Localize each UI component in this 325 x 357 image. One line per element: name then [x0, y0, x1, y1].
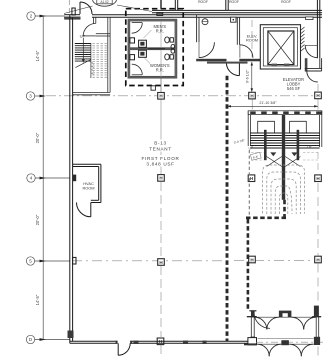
dim arrows: [40, 15, 47, 341]
restroom dashed demolition border: [126, 9, 183, 86]
bottom wall tick 2: [183, 341, 188, 344]
bottom wall corner blob: [68, 331, 74, 339]
leader men: [144, 30, 152, 38]
outer double door right pair swings: [289, 344, 301, 356]
stair hall right wall: [319, 115, 321, 147]
svg-text:ROOF: ROOF: [229, 0, 239, 4]
roof drain box on top wall: [157, 12, 163, 15]
corridor door swing into vestibule: [254, 312, 270, 328]
stair hall left wall: [247, 111, 249, 146]
grid bubble 5: [26, 257, 34, 265]
marker H (252,95.6): [249, 92, 256, 99]
marker H (160.5,341.3): [157, 338, 164, 345]
sink fixture men left wall: [130, 38, 135, 43]
drinking fountain right wall: [171, 44, 175, 48]
row stub line 5: [35, 260, 70, 262]
right run down arrow: [291, 152, 297, 156]
landing dashed edges: [251, 153, 319, 161]
vestibule wall above stair: [93, 17, 95, 24]
marker H (319.5,180): [315, 175, 322, 182]
grid col line x=161: [160, 100, 162, 357]
elevator cab: [268, 31, 294, 65]
up arrow line: [82, 38, 84, 60]
left run landing break diagonals: [267, 157, 282, 167]
elevator shaft outer wall: [260, 25, 300, 69]
marker H (161,262): [158, 259, 165, 266]
stair door swing: [83, 23, 96, 36]
HVAC door swing: [77, 203, 91, 217]
marker H (318,259.5): [315, 256, 322, 263]
toilet men: [165, 37, 170, 43]
grid row 3 dash line across plan: [46, 95, 318, 97]
marker H (252,259.5): [249, 256, 256, 263]
svg-text:21'-10 3/8": 21'-10 3/8": [259, 101, 277, 105]
horizontal dim 21'-10 3/8": [227, 105, 318, 107]
left run treads: [250, 133, 281, 148]
svg-text:3,848 USF: 3,848 USF: [146, 161, 174, 166]
row stub line 4: [35, 177, 69, 179]
overhead hatch dashed flight: [93, 44, 108, 78]
top-right closet walls: [305, 58, 308, 71]
left run rail post bar: [264, 130, 267, 160]
svg-text:14'-5": 14'-5": [35, 50, 40, 61]
left wall column bump row5: [73, 257, 76, 264]
bottom door swing: [118, 343, 130, 355]
inner double door left pair swings: [255, 317, 267, 329]
bottom exterior wall: [70, 340, 118, 342]
lobby top wall: [196, 59, 226, 62]
womens door swing: [132, 64, 143, 75]
stair room bottom wall: [73, 91, 111, 93]
stair hall hatched top wall: [248, 111, 322, 115]
right room door swing: [305, 45, 317, 57]
outer double door left pair swings: [257, 344, 269, 356]
svg-text:ROOF: ROOF: [281, 0, 291, 4]
marker H (242,180): [248, 175, 255, 182]
bottom wall tick 1: [134, 341, 139, 344]
elev machine room door swing: [240, 45, 253, 58]
dashed chevrons center: [90, 63, 93, 76]
callout leader left: [64, 6, 93, 14]
svg-text:FIRST FLOOR: FIRST FLOOR: [142, 156, 180, 161]
toilet women: [165, 54, 170, 60]
row stub line D: [35, 339, 70, 341]
svg-text:14'-5": 14'-5": [35, 294, 40, 305]
row stub line 3: [35, 95, 44, 97]
roof wall stub x176: [174, 0, 176, 10]
HVAC room right wall: [98, 167, 100, 201]
wall stub at top-left T: [64, 17, 80, 20]
outer wall left segment: [244, 343, 256, 345]
plumbing chase wall: [130, 47, 175, 50]
column grid markers (H in square): [157, 92, 321, 345]
restroom outer walls (poche): [129, 20, 177, 78]
HVAC room top wall: [73, 163, 101, 165]
svg-text:20'-0": 20'-0": [35, 214, 40, 225]
mens door swing: [132, 23, 143, 34]
grid dashes through stair hall: [317, 152, 319, 173]
callout bubble: [64, 0, 152, 14]
grid col line x=318: [317, 84, 319, 357]
grid line x161 top piece: [160, 0, 162, 9]
vestibule left jamb wall: [251, 311, 255, 317]
grid bubble D: [26, 335, 34, 343]
roof edge wall upper: [152, 9, 322, 11]
outer wall line: [256, 343, 313, 345]
lavatory counter women: [139, 50, 147, 57]
leader women: [144, 58, 150, 64]
roof wall stub x232: [225, 0, 227, 10]
svg-text:UP: UP: [80, 34, 86, 39]
corridor dashed wall horizontal y217: [246, 217, 287, 220]
bottom wall tick 3: [203, 341, 207, 344]
elevator door sill: [272, 64, 278, 67]
left wall column bump row4: [73, 175, 77, 182]
right run rail post bar: [297, 130, 300, 160]
demising wall dashed x227: [226, 76, 229, 342]
svg-text:R.R.: R.R.: [156, 28, 164, 33]
grid col line x=252: [251, 20, 253, 110]
svg-text:A1.02: A1.02: [100, 0, 109, 4]
svg-text:ROOM: ROOM: [82, 186, 94, 191]
marker H (318,95.4): [315, 92, 322, 99]
inner doors center mullion: [279, 311, 292, 314]
stair treads: [75, 44, 91, 62]
stair rail line: [90, 43, 92, 78]
left run down arrow: [270, 152, 276, 156]
top wall door swing: [80, 2, 92, 14]
junction box below block: [151, 86, 155, 90]
vertical dimension line: [42, 16, 44, 340]
elev machine room left wall: [236, 17, 238, 45]
svg-text:B-13: B-13: [154, 141, 167, 146]
jamb cap right: [312, 316, 321, 318]
up arrowhead: [82, 59, 85, 63]
vestibule room door swing: [199, 42, 214, 57]
grid bubble 3: [26, 92, 34, 100]
bottom door leaf: [117, 343, 119, 355]
cab X diagonal: [268, 31, 294, 65]
vestibule left jamb box: [248, 338, 257, 345]
stair room right wall: [107, 17, 109, 92]
storefront sill line: [255, 316, 317, 318]
inner double door right pair swings: [291, 317, 303, 329]
closet door swing: [307, 71, 318, 82]
callout leader right: [117, 5, 152, 12]
roof drain box top right: [306, 17, 313, 20]
svg-text:9'-6 1/2": 9'-6 1/2": [246, 69, 250, 83]
HVAC door leaf: [90, 203, 92, 217]
grid row D dashed through vestibule: [256, 341, 325, 343]
left run handrail U: [258, 121, 275, 133]
row stub line 2: [35, 15, 64, 17]
vestibule room left wall: [196, 15, 198, 43]
vestibule threshold line: [258, 337, 314, 339]
floor symbol circle: [202, 19, 208, 25]
vertical dim 9'-6 1/2": [251, 62, 253, 92]
svg-text:ROOF: ROOF: [198, 0, 208, 4]
demising door swing: [226, 63, 239, 76]
HVAC room bottom wall: [91, 199, 99, 201]
svg-text:R.R.: R.R.: [156, 67, 164, 72]
grid bubble 4: [27, 174, 35, 182]
lobby wall lip: [207, 62, 248, 64]
stair room top wall right part: [96, 33, 110, 35]
jamb cap left: [247, 316, 257, 318]
svg-text:ROOM: ROOM: [246, 38, 258, 43]
right run handrail U: [290, 121, 307, 133]
svg-text:20'-0": 20'-0": [35, 132, 40, 143]
svg-text:546 SF: 546 SF: [287, 86, 301, 91]
right run treads: [285, 133, 319, 148]
dim tag 9'-6": [250, 152, 261, 160]
shaft side hatch ticks: [301, 27, 305, 51]
marker H (161,177.9): [158, 175, 165, 182]
demising door leaf: [238, 63, 240, 76]
overhead dashed flight outlines: [263, 165, 305, 214]
left exterior wall: [69, 15, 71, 344]
right run landing break diagonals: [285, 157, 300, 167]
right exterior wall top: [316, 0, 318, 58]
center fixture cross line: [148, 48, 165, 50]
sink fixture women left wall: [130, 55, 135, 60]
grid bubble 2: [27, 12, 35, 20]
box on top wall: [231, 17, 236, 22]
grid col line x=69.5 above building: [68, 0, 70, 13]
grid row 5 dash line across plan: [72, 260, 226, 262]
stair center wall: [282, 115, 285, 200]
svg-text:TENANT: TENANT: [149, 146, 172, 151]
top wall door leaf: [79, 2, 81, 14]
break line diagonal: [75, 59, 91, 67]
stair door leaf: [83, 35, 96, 37]
vestibule right jamb wall: [314, 306, 319, 317]
corridor dashed wall x251.5: [247, 219, 250, 310]
corridor wall corner stub: [249, 310, 256, 312]
marker H (161,95.8): [158, 93, 165, 100]
top exterior wall: [64, 14, 80, 16]
lavatory counter men: [139, 40, 147, 47]
outer doors center mullion: [281, 340, 289, 345]
